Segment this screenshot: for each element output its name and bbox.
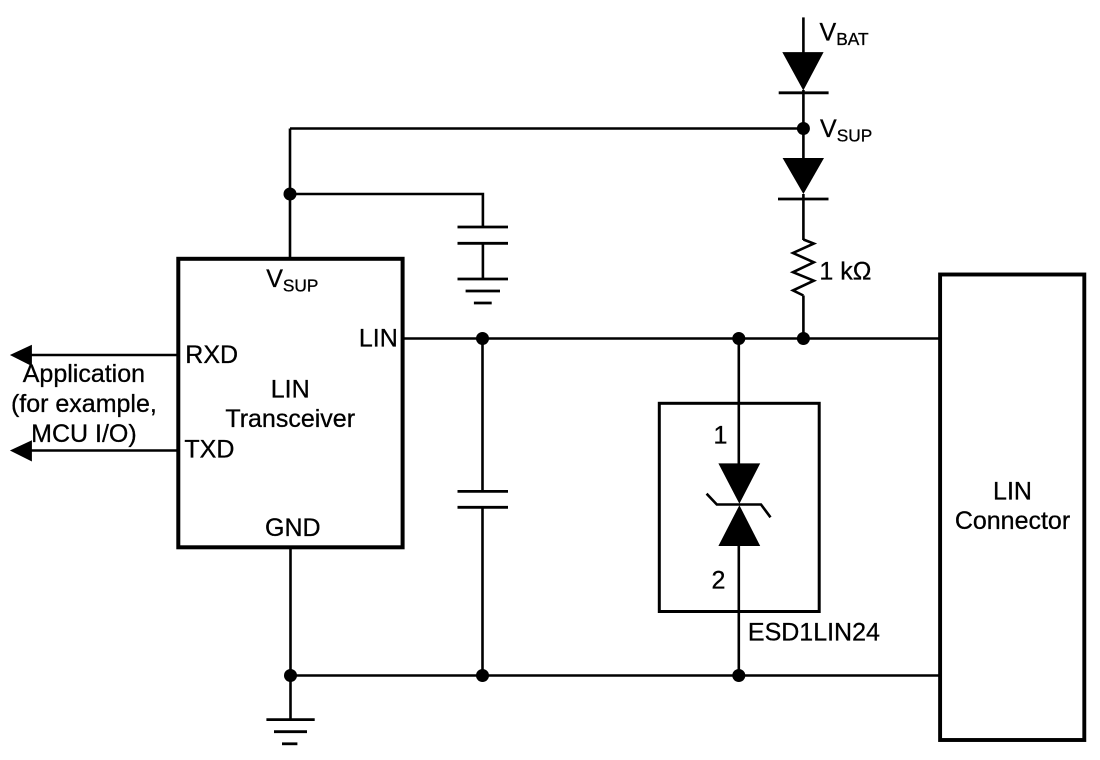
svg-text:1: 1 — [714, 422, 728, 450]
svg-text:LIN: LIN — [359, 324, 398, 352]
ground under C1 — [458, 279, 509, 303]
junction dot LIN bus / TVS — [732, 332, 745, 345]
arrow TXD to application — [10, 440, 32, 461]
svg-text:LIN: LIN — [993, 478, 1032, 506]
wire GND pin — [289, 546, 292, 676]
junction dot V_SUP node — [797, 122, 810, 135]
wire TVS to ground bus — [737, 545, 740, 676]
junction dot ground bus / TVS — [732, 669, 745, 682]
wire D2 cathode to resistor R1 — [802, 194, 805, 240]
wire RXD — [28, 354, 178, 357]
junction dot ground bus / C2 — [476, 669, 489, 682]
wire V_SUP drop to VSUP pin — [289, 129, 292, 259]
wire C1 to ground — [482, 243, 485, 279]
junction dot ground bus / GND — [284, 669, 297, 682]
ESD box — [659, 403, 819, 611]
arrow RXD to application — [10, 345, 32, 366]
LIN connector box J1 — [940, 275, 1084, 741]
svg-text:TXD: TXD — [184, 436, 234, 464]
svg-text:LIN: LIN — [271, 376, 310, 404]
wire V_SUP horizontal to transceiver — [290, 127, 803, 130]
svg-text:ESD1LIN24: ESD1LIN24 — [748, 619, 880, 647]
capacitor C2 — [458, 491, 509, 507]
junction dot LIN bus / R1 — [797, 332, 810, 345]
wire LIN bus to TVS — [737, 339, 740, 465]
svg-text:MCU I/O): MCU I/O) — [31, 420, 137, 448]
junction dot V_SUP branch — [284, 188, 297, 201]
svg-text:(for example,: (for example, — [11, 390, 157, 418]
diode D2 — [778, 158, 829, 199]
TVS diode bidirectional (ESD1LIN24) — [707, 463, 771, 546]
LIN transceiver box U1 — [178, 259, 402, 548]
wire V_BAT lead — [802, 17, 805, 54]
ground main (under GND pin) — [266, 720, 314, 744]
wire TXD — [28, 449, 178, 452]
wire ground bus — [291, 674, 941, 677]
svg-text:Connector: Connector — [955, 507, 1070, 535]
svg-text:Transceiver: Transceiver — [225, 405, 355, 433]
svg-text:GND: GND — [265, 514, 321, 542]
diode D1 — [779, 52, 829, 93]
junction dot LIN bus / C2 — [476, 332, 489, 345]
capacitor C1 — [458, 227, 509, 243]
wire V_SUP node to D2 — [802, 129, 805, 160]
svg-text:2: 2 — [712, 566, 726, 594]
resistor R1 — [793, 240, 814, 296]
wire LIN bus — [403, 337, 941, 340]
wire R1 to LIN bus — [802, 296, 805, 339]
svg-text:Application: Application — [23, 360, 145, 388]
wire D1 cathode to V_SUP node — [802, 90, 805, 130]
svg-text:1 kΩ: 1 kΩ — [819, 258, 871, 286]
wire C2 to ground bus — [481, 507, 484, 675]
svg-text:RXD: RXD — [185, 341, 238, 369]
wire LIN bus to capacitor C2 — [481, 339, 484, 492]
wire branch to capacitor C1 — [290, 194, 483, 227]
wire ground stub — [289, 676, 292, 720]
